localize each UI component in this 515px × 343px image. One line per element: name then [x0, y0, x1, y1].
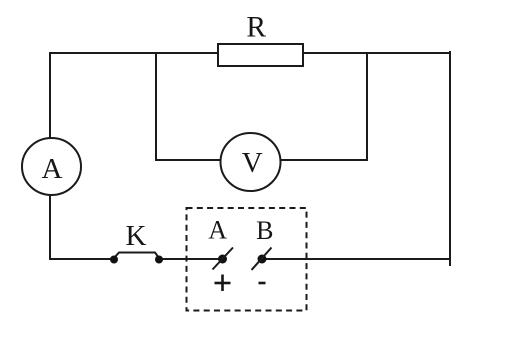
svg-text:K: K [126, 220, 147, 252]
switch K lever [114, 253, 159, 259]
wire left vertical upper [49, 53, 51, 138]
svg-text:B: B [256, 216, 273, 245]
terminal B slash [252, 248, 272, 271]
plus polarity mark [215, 275, 231, 292]
svg-text:A: A [208, 215, 227, 244]
wire bottom right segment [266, 258, 450, 260]
svg-text:V: V [242, 147, 263, 179]
dashed battery box [187, 208, 307, 311]
switch K right contact dot [155, 256, 163, 264]
voltmeter V [221, 133, 281, 191]
wire voltmeter branch right vertical [366, 53, 368, 160]
wire bottom left segment [50, 258, 111, 260]
svg-text:A: A [42, 153, 63, 185]
switch K left contact dot [110, 256, 118, 264]
terminal B dot [258, 255, 267, 264]
terminal A dot [218, 255, 227, 264]
resistor R [218, 44, 303, 66]
svg-text:R: R [246, 11, 266, 43]
ammeter A [22, 138, 81, 195]
minus polarity mark [259, 282, 266, 285]
wire top right segment [303, 52, 450, 54]
terminal A slash [213, 248, 234, 270]
wire voltmeter branch left horizontal [156, 159, 221, 161]
wire voltmeter branch left vertical [155, 53, 157, 160]
wire right vertical [449, 52, 451, 265]
wire left vertical lower [49, 194, 51, 259]
wire top left segment [50, 52, 218, 54]
wire bottom middle segment [162, 258, 219, 260]
wire voltmeter branch right horizontal [281, 159, 367, 161]
